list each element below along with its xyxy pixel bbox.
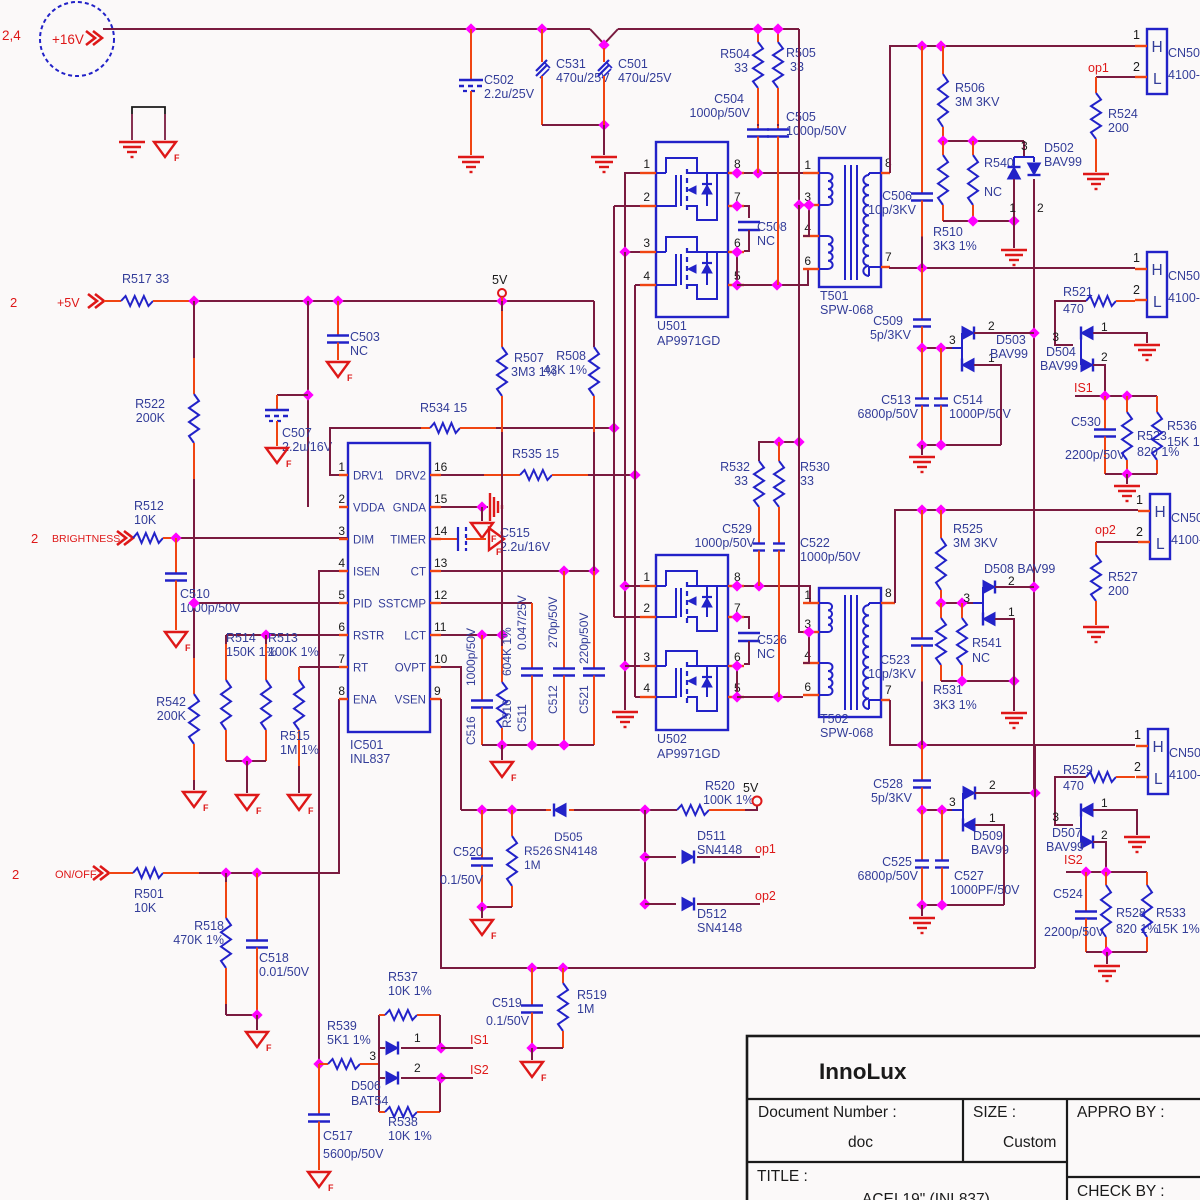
connector CN504 4100-D0	[1148, 729, 1168, 794]
U501 pin 2 stub	[640, 205, 656, 207]
svg-text:T502: T502	[820, 712, 849, 726]
svg-text:NC: NC	[757, 647, 775, 661]
svg-text:BAV99: BAV99	[1040, 359, 1078, 373]
svg-text:4100-D0: 4100-D0	[1168, 68, 1200, 82]
svg-text:4: 4	[804, 648, 811, 662]
svg-text:C511: C511	[515, 704, 529, 732]
wire D502 pin1 to ground	[1013, 221, 1015, 248]
svg-text:F: F	[347, 373, 353, 383]
svg-text:doc: doc	[848, 1134, 873, 1151]
wire R531 R541 bottom node	[941, 680, 1014, 682]
T501 secondary winding	[869, 172, 881, 174]
svg-text:H: H	[1153, 739, 1164, 756]
U502 pin 3 stub	[640, 665, 656, 667]
resistor R524	[1095, 77, 1097, 93]
svg-text:op2: op2	[755, 889, 776, 903]
wire gate2 vertical	[634, 285, 636, 697]
wire D509 pin2 to OVP net	[975, 792, 1035, 794]
wire R518 C518 bottom	[226, 1014, 257, 1016]
svg-text:10K 1%: 10K 1%	[388, 1129, 432, 1143]
svg-text:33: 33	[790, 60, 804, 74]
svg-text:F: F	[541, 1073, 547, 1083]
svg-text:RT: RT	[353, 663, 368, 675]
wire feed to T502 pin3	[798, 205, 800, 442]
svg-text:1M: 1M	[577, 1002, 594, 1016]
svg-text:C526: C526	[757, 633, 787, 647]
svg-text:1000p/50V: 1000p/50V	[464, 628, 478, 686]
wire +16V feed to T501 pin3	[799, 29, 803, 205]
svg-text:R506: R506	[955, 81, 985, 95]
svg-text:SN4148: SN4148	[697, 843, 742, 857]
svg-text:PID: PID	[353, 599, 372, 611]
svg-text:1: 1	[1101, 320, 1108, 334]
wire IS2 bus	[1066, 871, 1147, 873]
capacitor C526 path	[744, 617, 749, 629]
wire C525 C527 bottom	[922, 904, 1004, 906]
dual MOSFET U502 AP9971GD box	[656, 555, 728, 730]
svg-text:33: 33	[734, 61, 748, 75]
wire R506 R540 node	[943, 140, 1024, 142]
IC501 pin 6 RSTR stub	[339, 634, 348, 636]
node junction C501	[598, 39, 609, 50]
resistor R510	[942, 141, 944, 155]
svg-text:2: 2	[1136, 525, 1143, 539]
svg-text:2: 2	[1101, 350, 1108, 364]
U502 pin 8 stub	[728, 585, 744, 587]
resistor R542	[193, 658, 195, 694]
capacitor C531	[541, 29, 543, 62]
svg-text:NC: NC	[972, 651, 990, 665]
svg-text:2: 2	[10, 295, 17, 310]
wire op1 to CN501 pin2	[1096, 76, 1135, 78]
wire DRV1 to R534	[330, 428, 421, 475]
wire R532 R530 top feed	[759, 442, 799, 461]
svg-text:F: F	[185, 643, 191, 653]
svg-text:InnoLux: InnoLux	[819, 1059, 907, 1084]
svg-text:C523: C523	[880, 653, 910, 667]
svg-text:D502: D502	[1044, 141, 1074, 155]
T501 pin 4 stub	[803, 235, 819, 237]
svg-text:0.047/25V: 0.047/25V	[515, 595, 529, 650]
svg-text:1: 1	[414, 1031, 421, 1045]
svg-text:15: 15	[434, 492, 448, 506]
ground F R515	[288, 795, 310, 810]
svg-text:H: H	[1152, 39, 1163, 56]
svg-text:3: 3	[338, 524, 345, 538]
connector CN501 4100-D0	[1147, 29, 1167, 94]
U502 pin 7 stub	[728, 616, 744, 618]
svg-text:R532: R532	[720, 460, 750, 474]
svg-text:C529: C529	[722, 522, 752, 536]
svg-text:3K3 1%: 3K3 1%	[933, 698, 977, 712]
svg-text:2,4: 2,4	[2, 28, 21, 43]
svg-text:1000p/50V: 1000p/50V	[800, 550, 861, 564]
title block row divider 2	[747, 1161, 1067, 1163]
svg-text:+5V: +5V	[57, 296, 80, 310]
svg-text:1M 1%: 1M 1%	[280, 743, 319, 757]
U502 pin 6 stub	[728, 665, 744, 667]
svg-text:R526: R526	[524, 844, 553, 858]
svg-text:6800p/50V: 6800p/50V	[858, 407, 919, 421]
svg-text:10K 1%: 10K 1%	[388, 984, 432, 998]
svg-text:TIMER: TIMER	[390, 535, 426, 547]
IC501 pin 12 SSTCMP stub	[430, 602, 441, 604]
svg-text:L: L	[1154, 771, 1163, 788]
svg-text:D511: D511	[697, 829, 726, 843]
svg-text:1: 1	[989, 811, 996, 825]
wire U501 drain1 to T501	[744, 172, 803, 174]
svg-text:INL837: INL837	[350, 752, 390, 766]
svg-text:R531: R531	[933, 683, 963, 697]
wire LCT	[441, 634, 502, 636]
svg-text:C507: C507	[282, 426, 312, 440]
svg-text:C528: C528	[873, 777, 903, 791]
ground C525	[921, 905, 923, 916]
svg-text:F: F	[256, 806, 262, 816]
IC501 pin 8 ENA stub	[339, 698, 348, 700]
svg-text:5V: 5V	[492, 273, 508, 287]
svg-text:10p/3KV: 10p/3KV	[868, 667, 917, 681]
svg-text:1: 1	[804, 588, 811, 602]
svg-text:R519: R519	[577, 988, 607, 1002]
ground R527	[1083, 626, 1109, 628]
svg-text:op1: op1	[755, 842, 776, 856]
svg-text:1000p/50V: 1000p/50V	[690, 106, 751, 120]
svg-text:T501: T501	[820, 289, 849, 303]
D506 diode 2	[379, 1077, 385, 1079]
wire C501 to ground	[603, 125, 605, 155]
resistor R528	[1105, 872, 1107, 885]
svg-text:R533: R533	[1156, 906, 1186, 920]
svg-text:OVPT: OVPT	[395, 663, 426, 675]
capacitor C520	[481, 810, 483, 859]
wire D507 pin1 to ground	[1093, 810, 1137, 835]
resistor R536	[1156, 396, 1158, 412]
wire U501 pins 5 6 tie	[736, 252, 738, 285]
wire IS2 filter bottom	[1086, 951, 1147, 953]
svg-text:ACEI 19" (INL837): ACEI 19" (INL837)	[862, 1191, 990, 1200]
U501 pin 4 stub	[640, 284, 656, 286]
svg-text:4100-D0: 4100-D0	[1171, 533, 1200, 547]
node junction IS2	[435, 1072, 446, 1083]
svg-text:IS1: IS1	[1074, 381, 1093, 395]
svg-text:5p/3KV: 5p/3KV	[870, 328, 912, 342]
wire OVP net to VSEN bus	[1034, 745, 1036, 968]
svg-text:9: 9	[434, 684, 441, 698]
ground F C517	[308, 1172, 330, 1187]
svg-text:R516: R516	[500, 699, 514, 728]
svg-text:R528: R528	[1116, 906, 1146, 920]
svg-text:R520: R520	[705, 779, 735, 793]
svg-text:F: F	[328, 1183, 334, 1193]
svg-text:0.01/50V: 0.01/50V	[259, 965, 310, 979]
svg-text:3: 3	[1021, 139, 1028, 153]
ground C513	[921, 445, 923, 455]
svg-text:15K 1%: 15K 1%	[1167, 435, 1200, 449]
svg-text:D506: D506	[351, 1079, 381, 1093]
title block column divider appro	[1066, 1099, 1068, 1200]
T502 primary winding 2	[819, 662, 828, 664]
svg-text:F: F	[174, 153, 180, 163]
power input connector +16V	[40, 2, 114, 76]
svg-text:5p/3KV: 5p/3KV	[871, 791, 913, 805]
T502 pin 3 stub	[803, 631, 819, 633]
svg-text:4: 4	[643, 681, 650, 695]
ground IS1 filter	[1126, 474, 1128, 484]
wire VDDA riser	[307, 301, 309, 507]
svg-text:BAV99: BAV99	[1046, 840, 1084, 854]
capacitor C516	[481, 635, 483, 701]
svg-text:AP9971GD: AP9971GD	[657, 334, 720, 348]
svg-text:7: 7	[338, 652, 345, 666]
T502 core	[844, 595, 846, 710]
svg-text:DRV1: DRV1	[353, 471, 383, 483]
ground F R542	[183, 792, 205, 807]
ground D507 pin1	[1124, 836, 1150, 838]
resistor R507 5V to LCT	[501, 311, 503, 347]
svg-text:R505: R505	[786, 46, 816, 60]
svg-text:R535 15: R535 15	[512, 447, 559, 461]
svg-text:R542: R542	[156, 695, 186, 709]
capacitor C508 path	[744, 206, 749, 218]
svg-text:R518: R518	[194, 919, 224, 933]
wire to C507	[277, 394, 308, 396]
svg-text:4100-D0: 4100-D0	[1169, 768, 1200, 782]
svg-text:C504: C504	[714, 92, 744, 106]
svg-text:2: 2	[1133, 60, 1140, 74]
svg-text:8: 8	[338, 684, 345, 698]
wire C519 R519 bottom	[532, 1047, 563, 1049]
capacitor C501	[603, 48, 605, 62]
wire U502 pin3	[625, 665, 640, 667]
svg-text:R539: R539	[327, 1019, 357, 1033]
svg-text:Custom: Custom	[1003, 1134, 1056, 1151]
U501 pin 5 stub	[728, 284, 744, 286]
wire C509 bottom node	[922, 347, 952, 349]
capacitor C524	[1085, 872, 1087, 912]
svg-text:CHECK BY :: CHECK BY :	[1077, 1183, 1165, 1200]
svg-text:R513: R513	[268, 631, 298, 645]
svg-text:CN501: CN501	[1168, 46, 1200, 60]
svg-text:BAT54: BAT54	[351, 1094, 388, 1108]
svg-text:0.1/50V: 0.1/50V	[486, 1014, 530, 1028]
svg-text:5600p/50V: 5600p/50V	[323, 1147, 384, 1161]
capacitor C512	[563, 571, 565, 669]
svg-text:33: 33	[800, 474, 814, 488]
T502 pin 6 stub	[803, 694, 819, 696]
svg-text:604K 1%: 604K 1%	[500, 627, 514, 676]
svg-text:7: 7	[885, 683, 892, 697]
svg-text:13: 13	[434, 556, 448, 570]
svg-text:10: 10	[434, 652, 448, 666]
wire U501 gate1	[614, 205, 640, 207]
capacitor C513	[921, 348, 923, 399]
svg-text:2: 2	[643, 601, 650, 615]
svg-text:C512: C512	[546, 685, 560, 714]
wire timing ground bus	[482, 744, 594, 746]
svg-text:2: 2	[338, 492, 345, 506]
svg-text:2: 2	[12, 867, 19, 882]
svg-text:SN4148: SN4148	[697, 921, 742, 935]
svg-text:D509: D509	[973, 829, 1003, 843]
title block row divider 1	[747, 1098, 1200, 1100]
ground C502	[458, 156, 484, 158]
IC501 pin 9 VSEN stub	[430, 698, 441, 700]
capacitor C514	[940, 348, 942, 399]
svg-text:1M: 1M	[524, 858, 541, 872]
svg-text:SSTCMP: SSTCMP	[378, 599, 426, 611]
T501 pin 1 stub	[803, 172, 819, 174]
ground earth GNDA rotated	[489, 493, 491, 521]
U502 pin 1 stub	[640, 585, 656, 587]
svg-text:7: 7	[885, 250, 892, 264]
svg-text:2: 2	[1134, 760, 1141, 774]
wire R510 R540 bottom node	[943, 220, 1014, 222]
ground sources	[612, 711, 638, 713]
svg-text:D504: D504	[1046, 345, 1076, 359]
wire D509 pin1 loop	[975, 825, 1004, 905]
wire PID	[194, 602, 339, 604]
IC U IC501 INL837 box	[348, 443, 430, 732]
wire ON/OFF to ENA	[226, 699, 339, 873]
svg-text:1000PF/50V: 1000PF/50V	[950, 883, 1020, 897]
wire C531 to C501 bottom	[542, 124, 604, 126]
connector CN502 4100-D0	[1147, 252, 1167, 317]
U501 pin 7 stub	[728, 205, 744, 207]
wire T501 pins 3-4 tie	[803, 205, 809, 236]
ground F C520	[481, 907, 483, 918]
ground F right	[154, 142, 176, 157]
resistor R515	[298, 667, 300, 680]
svg-text:SIZE :: SIZE :	[973, 1104, 1016, 1121]
svg-text:6: 6	[804, 254, 811, 268]
svg-text:GNDA: GNDA	[393, 503, 427, 515]
svg-text:3: 3	[1052, 810, 1059, 824]
wire U502 pin2	[614, 616, 640, 618]
svg-text:6: 6	[804, 680, 811, 694]
svg-text:F: F	[511, 773, 517, 783]
svg-text:D512: D512	[697, 907, 727, 921]
svg-text:1: 1	[1009, 201, 1016, 215]
title block check divider	[1067, 1176, 1200, 1178]
T502 pin 7 stub	[881, 699, 890, 701]
svg-text:Document Number :: Document Number :	[758, 1104, 897, 1121]
svg-text:1000P/50V: 1000P/50V	[949, 407, 1012, 421]
svg-text:12: 12	[434, 588, 448, 602]
svg-text:11: 11	[434, 620, 447, 634]
svg-text:IS2: IS2	[1064, 853, 1083, 867]
U501 pin 8 stub	[728, 172, 744, 174]
svg-text:NC: NC	[350, 344, 368, 358]
U502 pin 2 stub	[640, 616, 656, 618]
svg-text:2.2u/16V: 2.2u/16V	[500, 540, 551, 554]
wire C528 bottom node	[922, 809, 952, 811]
svg-text:SN4148: SN4148	[554, 844, 598, 858]
resistor R531	[940, 603, 942, 618]
svg-text:3: 3	[949, 333, 956, 347]
svg-text:C506: C506	[882, 189, 912, 203]
wire U502 pin4	[635, 696, 640, 698]
svg-text:C530: C530	[1071, 415, 1101, 429]
svg-text:D505: D505	[554, 830, 583, 844]
svg-text:270p/50V: 270p/50V	[546, 597, 560, 648]
ground F C518	[256, 1015, 258, 1030]
T501 pin 8 stub	[881, 172, 890, 174]
svg-text:470: 470	[1063, 302, 1084, 316]
wire R514 R513 bottom	[226, 760, 266, 762]
wire +5V bus	[194, 300, 594, 302]
svg-text:14: 14	[434, 524, 448, 538]
svg-text:AP9971GD: AP9971GD	[657, 747, 720, 761]
svg-text:U501: U501	[657, 319, 687, 333]
svg-text:10p/3KV: 10p/3KV	[868, 203, 917, 217]
svg-text:op1: op1	[1088, 61, 1109, 75]
IC501 pin 13 CT stub	[430, 570, 441, 572]
svg-text:200K: 200K	[136, 411, 166, 425]
svg-text:CT: CT	[411, 567, 426, 579]
MOSFET 2 of U501	[656, 251, 666, 253]
wire +16V bus	[103, 28, 590, 30]
wire U501 gate2	[635, 284, 640, 286]
diode D502 BAV99	[1014, 141, 1024, 157]
svg-text:D503: D503	[996, 333, 1026, 347]
svg-text:4: 4	[338, 556, 345, 570]
wire T501 pin7 to CN502 bus	[890, 267, 1135, 268]
U501 pin 3 stub	[640, 251, 656, 253]
T502 primary winding 1	[819, 602, 828, 604]
svg-text:F: F	[266, 1043, 272, 1053]
diode D512 SN4148	[645, 903, 676, 905]
node junction C531	[536, 23, 547, 34]
T501 pin 6 stub	[803, 268, 819, 270]
wire C513 C514 bottom	[922, 444, 1001, 446]
T502 secondary winding	[869, 602, 881, 604]
IC501 pin 2 VDDA stub	[339, 506, 348, 508]
svg-text:H: H	[1155, 504, 1166, 521]
svg-text:6: 6	[338, 620, 345, 634]
svg-text:ON/OFF: ON/OFF	[55, 869, 97, 881]
svg-text:16: 16	[434, 460, 448, 474]
svg-text:1: 1	[1133, 28, 1140, 42]
svg-text:C502: C502	[484, 73, 514, 87]
capacitor C509	[921, 268, 923, 320]
svg-text:R515: R515	[280, 729, 310, 743]
wire R525 R541 node	[941, 602, 973, 604]
wire U501 drain2 to T501 pin6	[737, 269, 808, 285]
svg-text:4100-D0: 4100-D0	[1168, 291, 1200, 305]
svg-text:2: 2	[31, 531, 38, 546]
wire SSTCMP	[441, 602, 532, 604]
T501 primary winding 2	[819, 235, 828, 237]
svg-text:100K 1%: 100K 1%	[703, 793, 754, 807]
IC501 pin 14 TIMER stub	[430, 538, 441, 540]
svg-text:NC: NC	[984, 185, 1002, 199]
svg-text:R514: R514	[226, 631, 256, 645]
MOSFET 2 of U502	[656, 665, 666, 667]
svg-text:CN504: CN504	[1169, 746, 1200, 760]
svg-text:2: 2	[643, 190, 650, 204]
MOSFET 1 of U502	[656, 585, 666, 587]
svg-text:C521: C521	[577, 685, 591, 714]
wire D508 pin1 to ground	[995, 619, 1014, 711]
svg-text:5: 5	[338, 588, 345, 602]
svg-text:C505: C505	[786, 110, 816, 124]
wire IS1 stub	[441, 1047, 473, 1049]
IC501 pin 11 LCT stub	[430, 634, 441, 636]
resistor R518	[225, 882, 227, 918]
svg-text:15K 1%: 15K 1%	[1156, 922, 1200, 936]
svg-text:200: 200	[1108, 584, 1129, 598]
